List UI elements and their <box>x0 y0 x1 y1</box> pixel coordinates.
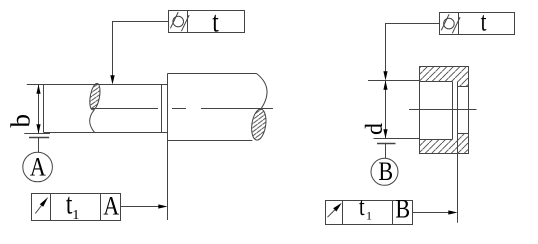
datum A circle <box>23 152 53 182</box>
datum B circle <box>371 158 398 185</box>
shaft small diameter section <box>44 85 168 133</box>
extension line of shoulder face <box>167 141 169 221</box>
datum A tick <box>29 137 49 139</box>
groove right wall and its extension line <box>457 82 459 223</box>
centerline (hub axis) <box>409 109 477 111</box>
svg-text:1: 1 <box>72 208 79 223</box>
datum B tick <box>377 143 396 145</box>
lip bore top line <box>458 86 469 88</box>
svg-text:t: t <box>481 7 487 37</box>
tolerance frame F2 box <box>440 13 515 35</box>
groove left wall <box>452 82 454 140</box>
svg-text:t: t <box>359 193 365 222</box>
hub bottom section hatching <box>420 134 469 154</box>
hub outer rectangle <box>420 67 469 154</box>
cylindricity symbol in F1 <box>170 12 189 31</box>
shaft large diameter section <box>168 74 257 141</box>
dimension b line with arrows <box>36 85 40 134</box>
dimension b extension lines <box>24 85 50 134</box>
svg-text:B: B <box>395 196 410 224</box>
svg-text:A: A <box>30 154 46 182</box>
cylindricity symbol in F2 <box>441 14 460 33</box>
svg-text:1: 1 <box>366 209 372 223</box>
shaft break (arc + hatched half ellipse) <box>250 74 268 142</box>
hub bore top line <box>420 81 453 83</box>
lip bore bottom line <box>458 133 469 135</box>
FCF1 box (runout t1 A) <box>32 194 121 221</box>
svg-text:t: t <box>212 5 219 38</box>
shaft step line <box>161 85 163 133</box>
centerline (left shaft axis) <box>92 108 273 110</box>
dimension d extension lines <box>368 81 419 139</box>
keyway broken-out section (hatched ellipse + break arc) <box>88 83 102 133</box>
FCF2 box (runout t1 B) <box>326 201 413 225</box>
hub top section hatching <box>420 67 469 87</box>
circular runout symbol in FCF1 <box>35 197 48 214</box>
hub bore bottom line <box>420 139 453 141</box>
leader wire from FCF1 to shoulder extension <box>121 204 168 208</box>
leader wire from FCF2 to groove wall extension <box>413 210 458 214</box>
dimension d line with arrows <box>383 81 387 139</box>
tolerance frame F1 box <box>169 11 245 33</box>
circular runout symbol in FCF2 <box>328 203 342 217</box>
svg-text:b: b <box>6 114 36 128</box>
svg-text:d: d <box>362 123 388 135</box>
datum A connector <box>38 138 40 153</box>
leader wire from F1 to shaft keyway <box>110 22 168 85</box>
leader wire from F2 to bore extension <box>383 24 439 81</box>
svg-text:B: B <box>378 158 393 186</box>
svg-text:A: A <box>103 193 119 221</box>
datum B connector <box>385 144 387 159</box>
